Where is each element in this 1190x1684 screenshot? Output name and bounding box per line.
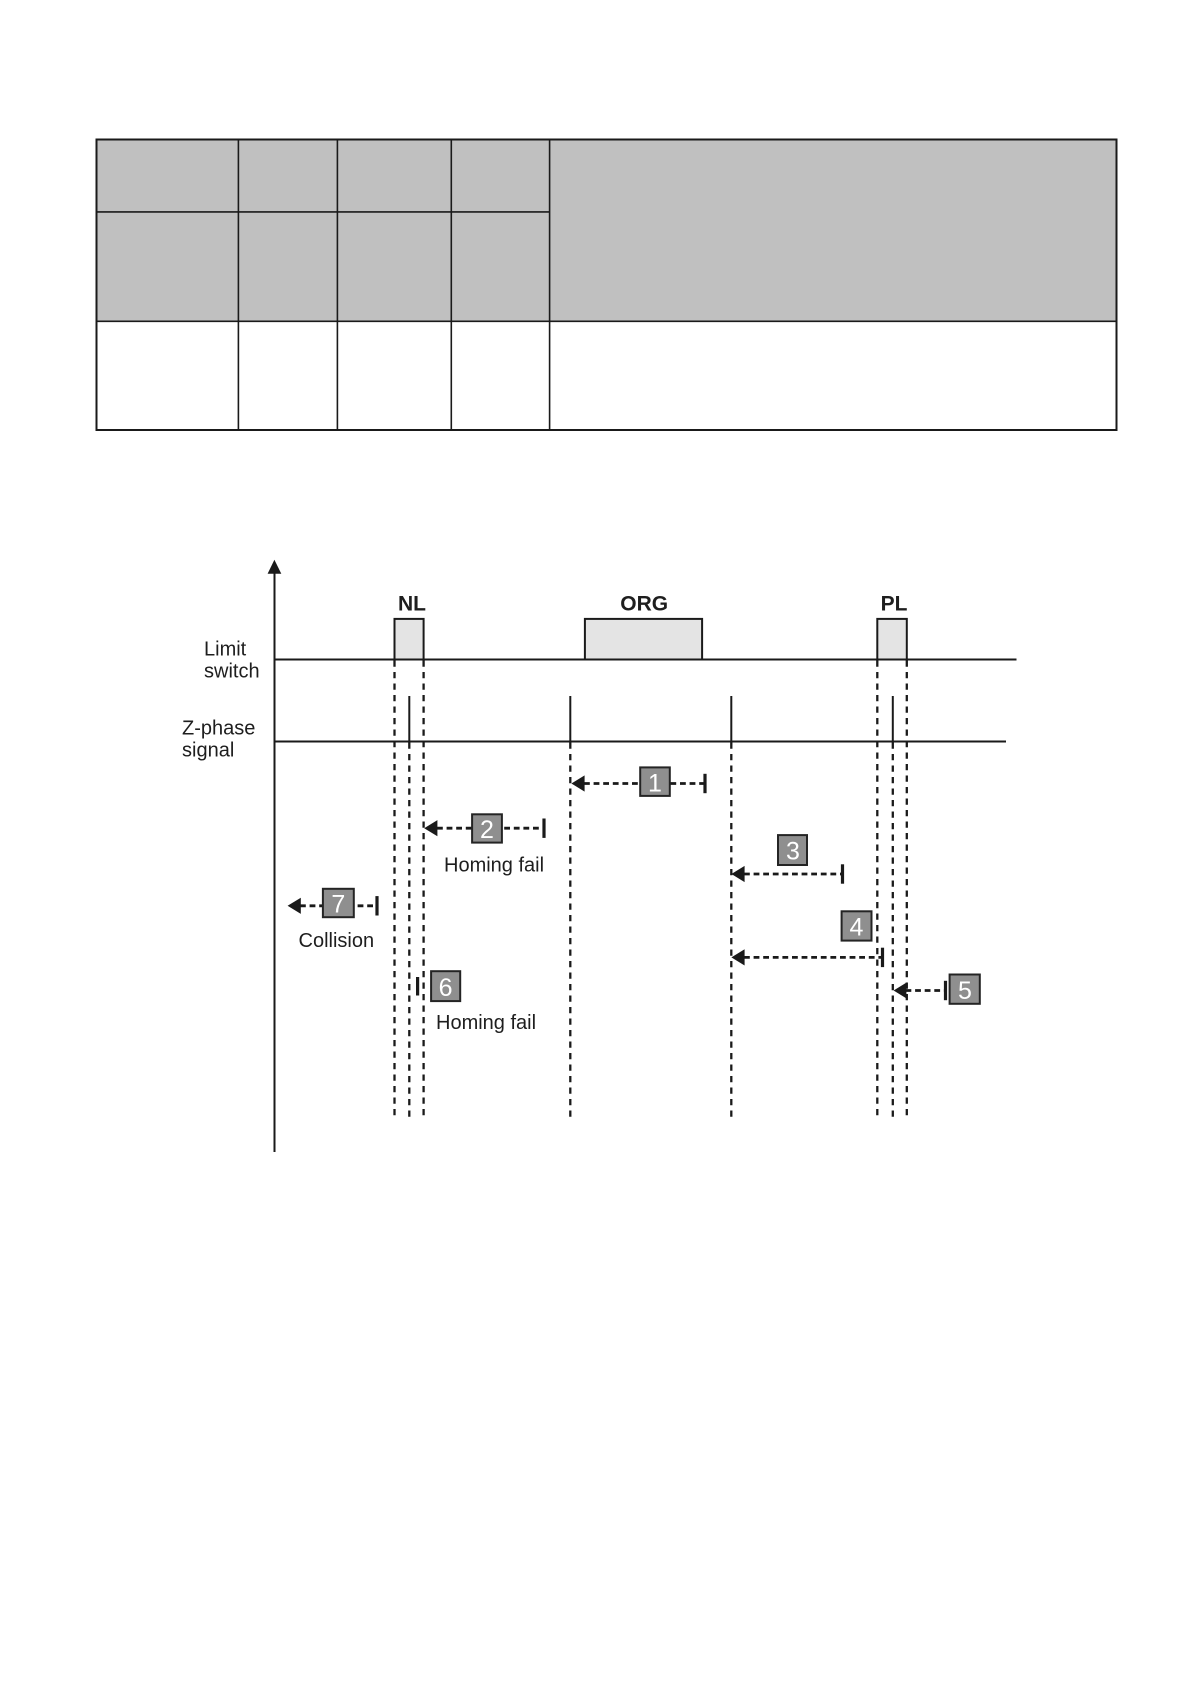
table column line 1 <box>237 140 239 431</box>
Z-phase tick right of ORG <box>730 696 732 742</box>
arrow 3 dashed line <box>744 873 841 876</box>
dotted line NL z-tick <box>408 743 410 1118</box>
dotted line ORG left z-tick <box>569 743 571 1118</box>
arrow 4 start bar <box>881 948 884 967</box>
dotted line PL left <box>876 661 878 1118</box>
vertical axis line <box>274 571 276 1152</box>
step box 1 <box>640 767 670 796</box>
table row line 1 (spans columns 1-4 only) <box>97 211 550 213</box>
svg-text:1: 1 <box>648 769 662 797</box>
step box 5 <box>950 975 980 1004</box>
arrow 5 start bar <box>944 981 947 1000</box>
step box 3 <box>778 835 807 865</box>
limit switch baseline <box>275 659 1017 661</box>
svg-text:Collision: Collision <box>299 930 375 952</box>
arrow 4 head <box>731 949 744 965</box>
axis arrowhead <box>268 560 282 574</box>
Z-phase baseline <box>275 741 1006 743</box>
svg-text:Homing fail: Homing fail <box>436 1012 536 1034</box>
arrow 3 start bar <box>841 864 844 883</box>
dotted line NL right <box>422 661 424 1118</box>
arrow 2 dashed line <box>437 827 543 830</box>
arrow 5 head <box>894 983 907 999</box>
bar for step 6 <box>416 977 419 996</box>
arrow 5 dashed line <box>906 989 945 992</box>
step box 2 <box>472 814 502 842</box>
ORG pulse <box>585 619 702 660</box>
svg-text:3: 3 <box>786 838 800 866</box>
step box 7 <box>323 889 354 917</box>
table outer border <box>97 140 1117 431</box>
arrow 2 start bar <box>542 819 545 838</box>
svg-text:Homing fail: Homing fail <box>444 855 544 877</box>
PL pulse <box>877 619 907 660</box>
arrow 7 start bar <box>375 896 378 915</box>
svg-text:signal: signal <box>182 740 234 762</box>
table row line 2 <box>97 320 1117 322</box>
dotted line ORG right z-tick <box>730 743 732 1118</box>
svg-text:ORG: ORG <box>620 593 668 616</box>
svg-text:2: 2 <box>480 816 494 844</box>
step box 6 <box>431 971 460 1001</box>
Z-phase tick at PL <box>892 696 894 742</box>
arrow 7 head <box>288 898 301 914</box>
arrow 1 start bar <box>703 774 706 793</box>
dotted line PL right <box>906 661 908 1118</box>
svg-text:6: 6 <box>439 974 453 1002</box>
svg-text:Z-phase: Z-phase <box>182 718 255 740</box>
table column line 2 <box>336 140 338 431</box>
table header fill <box>97 140 1116 321</box>
Z-phase tick at NL <box>408 696 410 742</box>
step box 4 <box>842 911 872 940</box>
table column line 3 <box>450 140 452 431</box>
arrow 1 dashed line <box>584 782 704 785</box>
svg-text:switch: switch <box>204 661 260 683</box>
dotted line PL z-tick <box>892 743 894 1118</box>
arrow 7 dashed line <box>300 904 376 907</box>
table column line 4 <box>549 140 551 431</box>
svg-text:NL: NL <box>398 593 426 616</box>
svg-text:4: 4 <box>850 914 864 942</box>
svg-text:PL: PL <box>881 593 908 616</box>
svg-text:5: 5 <box>958 977 972 1005</box>
arrow 1 head <box>571 775 584 791</box>
dotted line NL left <box>393 661 395 1118</box>
svg-text:Limit: Limit <box>204 639 247 661</box>
Z-phase tick left of ORG <box>569 696 571 742</box>
arrow 4 dashed line <box>744 956 881 959</box>
arrow 2 head <box>424 820 437 836</box>
NL pulse <box>395 619 424 660</box>
svg-text:7: 7 <box>331 891 345 919</box>
arrow 3 head <box>731 866 744 882</box>
